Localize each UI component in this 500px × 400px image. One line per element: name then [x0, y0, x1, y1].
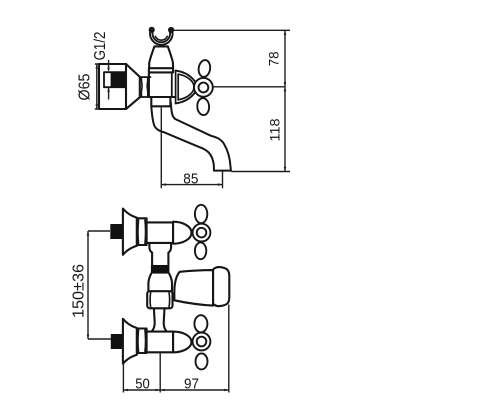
svg-text:G1/2: G1/2: [92, 32, 109, 61]
svg-text:50: 50: [135, 376, 150, 393]
svg-text:Ø65: Ø65: [76, 73, 93, 100]
svg-text:118: 118: [268, 119, 283, 142]
svg-text:97: 97: [184, 376, 199, 393]
svg-text:150±36: 150±36: [71, 264, 88, 318]
svg-text:78: 78: [267, 51, 282, 66]
svg-text:85: 85: [183, 172, 198, 188]
